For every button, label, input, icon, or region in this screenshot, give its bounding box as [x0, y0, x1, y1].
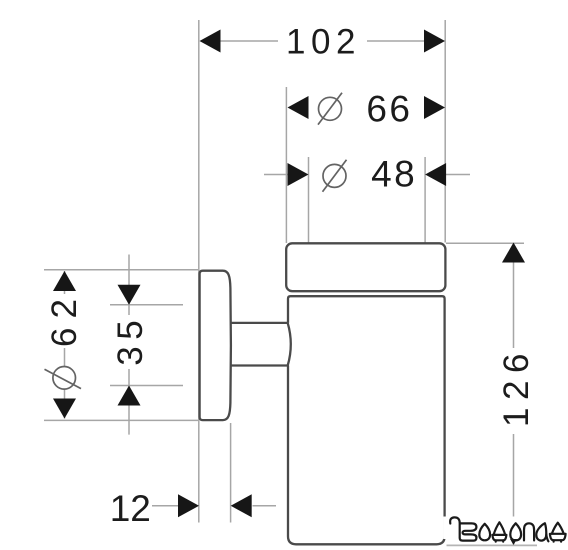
svg-text:48: 48	[371, 154, 417, 195]
svg-text:62: 62	[45, 290, 84, 347]
svg-text:35: 35	[111, 314, 150, 366]
svg-text:102: 102	[286, 23, 361, 62]
svg-text:12: 12	[110, 488, 151, 529]
svg-text:66: 66	[366, 88, 412, 129]
svg-text:126: 126	[497, 346, 536, 427]
